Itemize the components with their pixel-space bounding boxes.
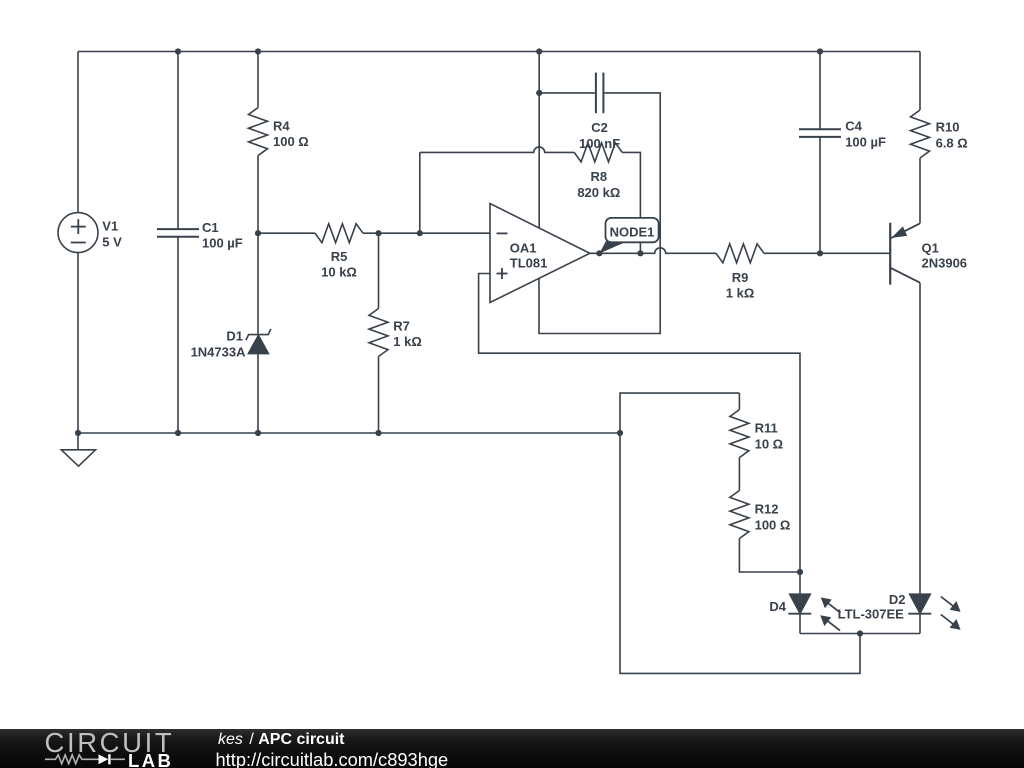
wire C2 left lead [539,92,595,94]
resistor R9 [716,244,764,263]
node junction LED return [857,630,863,636]
voltage source V1 [58,213,98,253]
wire LED cathode rail [800,633,920,635]
wire R4 top lead [257,52,259,108]
label D2 [889,592,906,607]
svg-text:R7: R7 [393,318,410,333]
wire D2 bottom lead [919,614,921,634]
wire R7 bottom lead [378,357,380,434]
wire C4 top lead [819,52,821,130]
svg-text:100 nF: 100 nF [579,136,620,151]
node junction ground rail / D1 [255,430,261,436]
wire R11 top lead [738,393,740,410]
label R11 10 ohm [755,421,784,452]
wire V1 bottom lead [77,252,79,433]
wire R4 bottom lead [257,156,259,234]
node junction R8 / output [637,250,643,256]
wire R12 bottom lead [739,539,800,573]
wire op-amp output with hop [590,248,716,254]
svg-text:100 Ω: 100 Ω [273,134,309,149]
wire C1 bottom lead [177,237,179,433]
wire R10 top lead [919,52,921,111]
node junction ground rail / R7 [375,430,381,436]
label D1 1N4733A [191,328,247,359]
wire V1 top lead [77,52,79,214]
node NODE1 flag [599,218,658,254]
svg-text:TL081: TL081 [510,255,548,270]
resistor R8 [574,143,622,162]
svg-text:C4: C4 [845,119,862,134]
svg-text:R11: R11 [755,421,778,436]
wire top supply rail [78,51,920,53]
transistor Q1 2N3906 [890,223,920,285]
svg-text:D1: D1 [226,328,243,343]
svg-text:6.8 Ω: 6.8 Ω [936,136,968,151]
label LTL-307EE [838,606,905,621]
node junction output [596,250,602,256]
label R5 10 kohm [321,249,357,280]
wire D1 top lead [257,233,259,334]
svg-text:Q1: Q1 [922,240,939,255]
svg-text:100 µF: 100 µF [202,236,243,251]
svg-text:100 µF: 100 µF [845,134,886,149]
svg-text:R8: R8 [590,169,607,184]
wire D1 bottom lead [257,354,259,433]
node junction ground rail / C1 [175,430,181,436]
node junction top rail / R4 [255,48,261,54]
node junction V+ / C2 [536,90,542,96]
label D4 [769,599,786,614]
resistor R10 [911,110,930,158]
label OA1 TL081 [510,240,548,270]
wire C1 top lead [177,52,179,230]
CircuitLab logo text CIRCUIT [45,727,175,759]
svg-text:R4: R4 [273,118,290,133]
resistor R5 [315,224,363,243]
capacitor C1 [157,229,199,237]
svg-text:OA1: OA1 [510,240,537,255]
wire R8 right segment [622,152,640,253]
led D2 light arrows [941,597,961,630]
node junction R4 / R5 / D1 [255,230,261,236]
label R9 1 kohm [726,270,755,301]
capacitor C4 [799,129,841,137]
footer bar [0,729,1024,768]
node junction top rail / C1 [175,48,181,54]
wire ground rail [78,432,620,434]
svg-text:5 V: 5 V [102,234,122,249]
svg-text:2N3906: 2N3906 [922,255,968,270]
svg-text:D2: D2 [889,592,906,607]
node junction top rail / C4 [817,48,823,54]
wire C2 right lead to V- [539,93,660,334]
resistor R4 [249,108,268,156]
label C2 100 nF [579,120,620,151]
svg-text:10 kΩ: 10 kΩ [321,265,357,280]
svg-text:10 Ω: 10 Ω [755,437,784,452]
wire return loop [620,393,860,673]
svg-text:820 kΩ: 820 kΩ [577,185,620,200]
svg-text:1 kΩ: 1 kΩ [726,286,755,301]
label R7 1 kohm [393,318,422,349]
wire non-inverting input [479,274,800,573]
node junction ground / return [617,430,623,436]
label Q1 2N3906 [922,240,968,270]
node junction C4 / base [817,250,823,256]
svg-text:R10: R10 [936,120,960,135]
wire D4 top lead [799,572,801,594]
label R10 6.8 ohm [936,120,968,151]
wire R8 left segment with hop [420,147,574,153]
svg-text:R12: R12 [755,502,779,517]
label R4 100 ohm [273,118,309,149]
wire R9 right lead [764,252,890,254]
photodiode D4 light arrows [820,597,840,630]
svg-text:NODE1: NODE1 [610,225,655,240]
label R8 820 kohm [577,169,620,200]
title text kes / APC circuit [218,731,345,749]
photodiode D4 [788,594,811,614]
svg-text:R5: R5 [331,249,348,264]
wire C4 bottom lead [819,137,821,253]
wire inverting node riser [419,152,421,233]
label C4 100 uF [845,119,886,150]
node junction inverting input [417,230,423,236]
CircuitLab logo icon (resistor + diode) [45,751,127,768]
wire R7 top lead [378,233,380,308]
svg-text:D4: D4 [769,599,786,614]
wire R5 left lead [258,232,315,234]
ground symbol [61,433,95,466]
wire R10 bottom lead [919,158,921,223]
resistor R11 [730,410,749,458]
CircuitLab logo text LAB [128,750,173,768]
wire op-amp V+ riser [538,52,540,229]
zener diode D1 [246,329,271,354]
svg-text:LTL-307EE: LTL-307EE [838,606,905,621]
resistor R12 [730,491,749,539]
svg-text:1 kΩ: 1 kΩ [393,334,422,349]
url text [216,749,449,768]
wire R11-R12 link [738,458,740,491]
svg-text:R9: R9 [732,270,749,285]
svg-text:C2: C2 [591,120,608,135]
resistor R7 [369,309,388,357]
node junction top rail / op-amp V+ [536,48,542,54]
op-amp OA1 [490,204,590,303]
capacitor C2 [596,73,604,114]
svg-text:1N4733A: 1N4733A [191,344,247,359]
node junction R12 / D4 anode [797,569,803,575]
svg-text:100 Ω: 100 Ω [755,517,791,532]
node junction ground rail / V1 [75,430,81,436]
node junction R5 / R7 [375,230,381,236]
wire Q1 collector lead [919,283,921,595]
label R12 100 ohm [755,502,791,533]
wire R5 right lead [363,232,490,234]
svg-text:C1: C1 [202,220,219,235]
wire D4 bottom lead [799,614,801,634]
svg-text:V1: V1 [102,219,118,234]
led D2 [908,594,931,614]
label V1 5 V [102,219,122,250]
label C1 100 uF [202,220,243,251]
